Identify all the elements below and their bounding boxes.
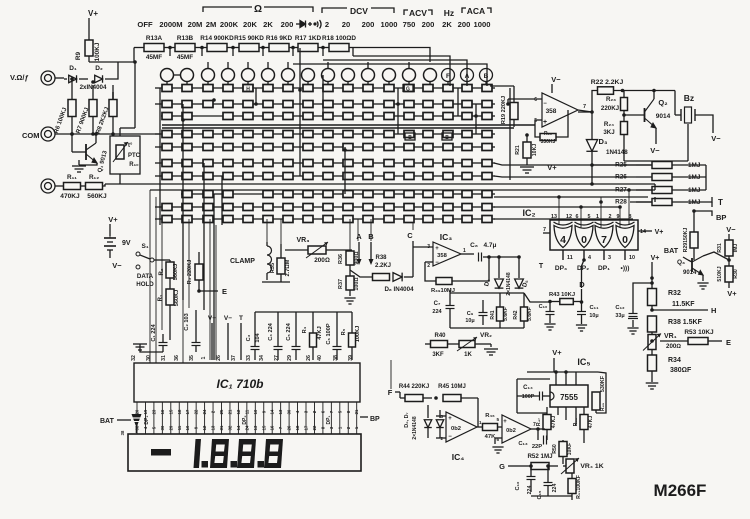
svg-text:31: 31 [219,425,224,430]
svg-text:OFF: OFF [137,20,153,29]
svg-text:Hz: Hz [444,8,454,18]
svg-text:V+: V+ [655,229,664,236]
svg-text:3: 3 [608,255,611,261]
svg-text:V−: V− [650,146,660,155]
svg-text:560KJ: 560KJ [173,264,179,280]
wire circle stubs up [207,62,209,69]
resistor R32 [648,289,657,306]
circled node A [461,69,474,82]
resistor R41 [497,307,504,321]
svg-text:R₄: R₄ [302,326,308,333]
resistor R49 [592,392,600,410]
transistor Q3 9014 [692,256,703,275]
svg-text:R₂₄: R₂₄ [604,121,614,128]
svg-text:R50: R50 [552,444,558,454]
svg-text:26: 26 [216,355,222,361]
svg-text:R13B: R13B [177,35,194,42]
ground R34 [646,383,659,389]
svg-text:17: 17 [185,409,190,414]
resistor R37 [346,276,354,290]
svg-text:R19 220KJ: R19 220KJ [501,96,507,124]
resistor R9 [85,40,93,56]
wire IC4 out [477,426,482,428]
IC5 7555 box [550,385,588,407]
svg-text:13: 13 [278,409,283,414]
switch contact B2 [405,133,415,140]
resistor R50 [559,442,567,457]
svg-text:11: 11 [244,409,249,414]
switch contact row 4 [162,131,172,138]
input jack COM [41,127,55,141]
svg-text:26: 26 [306,355,312,361]
svg-text:R17 1KD: R17 1KD [295,35,322,42]
svg-text:7: 7 [543,227,546,233]
transistor Q2 9014 [645,99,657,128]
svg-text:30: 30 [287,409,292,414]
resistor R21 [523,142,531,158]
wire COM rail [55,133,160,135]
svg-text:DP₃: DP₃ [555,265,567,272]
svg-text:12: 12 [236,409,241,414]
op-amp IC4 [446,412,477,442]
svg-text:+: + [435,246,439,252]
svg-text:17: 17 [304,425,309,430]
svg-text:14: 14 [236,425,241,430]
svg-text:R₄₉: R₄₉ [600,403,606,411]
svg-text:R₁₂: R₁₂ [89,174,99,181]
svg-text:12: 12 [202,425,207,430]
svg-text:R30: R30 [733,269,739,279]
resistor R6 [68,100,76,117]
svg-text:14: 14 [640,229,646,235]
svg-text:R53 10KJ: R53 10KJ [684,329,714,336]
svg-text:2K: 2K [263,20,273,29]
node T right [695,197,712,202]
svg-text:1000: 1000 [381,20,398,29]
wire feeder rail 3 [323,60,467,86]
diode D6 [424,420,432,428]
svg-text:R34: R34 [668,357,681,364]
svg-text:39: 39 [348,355,354,361]
wire IC3 out [461,253,474,255]
capacitor C16 [527,477,536,480]
svg-text:B: B [484,73,489,80]
svg-text:B: B [445,135,449,141]
svg-text:27: 27 [274,355,280,361]
svg-text:200: 200 [422,20,435,29]
svg-text:16: 16 [270,425,275,430]
wire VR3 [285,249,308,251]
svg-text:R₄₇: R₄₇ [536,418,542,426]
svg-text:ACV: ACV [409,8,427,18]
svg-text:D₆, D₇: D₆, D₇ [404,412,410,427]
resistor R34 [648,355,657,371]
svg-text:0b2: 0b2 [451,426,461,432]
net label Ohm range bracket [203,7,252,12]
svg-text:−: − [543,101,547,107]
wire left drop from R13A [89,48,134,63]
svg-text:29: 29 [287,355,293,361]
svg-text:−: − [435,260,439,266]
svg-text:C₉: C₉ [467,311,474,317]
svg-text:34: 34 [259,355,265,361]
svg-text:16: 16 [160,409,165,414]
wire jack3 to R11 [55,185,63,187]
wire R3 net E [198,252,200,264]
svg-text:Ω: Ω [254,4,262,15]
wire Q2 emitter V- [655,128,657,144]
svg-text:R35: R35 [270,263,276,273]
svg-text:F: F [446,73,450,80]
ground IC4b [494,438,496,444]
switch contact H [243,85,253,92]
svg-text:T: T [718,198,723,207]
svg-text:C₅ 224: C₅ 224 [286,322,292,340]
svg-text:5.6KF: 5.6KF [503,307,509,321]
svg-text:R21: R21 [515,145,521,155]
resistor R8 [109,100,117,117]
resistor R3 [195,264,203,280]
thermistor PTC R10 [110,136,140,174]
svg-text:38: 38 [120,430,125,435]
resistor R29 [690,232,698,248]
wire R1 down [169,305,171,340]
svg-text:2×1N4148: 2×1N4148 [412,416,418,439]
wire R42 to C10 rail [524,293,550,302]
inductor clamp coil [267,246,272,273]
svg-text:R₅₁100KF: R₅₁100KF [576,475,582,499]
svg-text:22: 22 [194,409,199,414]
wire feeder rail 2 [353,56,450,86]
svg-text:24: 24 [202,409,207,414]
resistor R48 [580,415,588,430]
svg-text:29: 29 [168,425,173,430]
resistor R1 [166,289,174,305]
wire R28 net [654,197,656,202]
net label ACV bracket [404,10,408,15]
switch contact row 9 [162,204,172,211]
svg-text:C₁₁: C₁₁ [590,305,600,311]
svg-text:224: 224 [552,484,558,493]
op-amp IC1 7106 box [134,363,360,402]
svg-text:R31: R31 [717,243,723,253]
wire VR3 drop [349,219,351,250]
wire Q2 base [624,114,645,116]
svg-text:24: 24 [244,425,249,430]
input jack V-ohm-f [41,71,55,85]
svg-text:1N4148: 1N4148 [606,149,628,156]
svg-text:Q₂: Q₂ [658,98,667,107]
svg-text:DP₁: DP₁ [326,415,332,424]
svg-text:G: G [406,87,410,93]
svg-text:35: 35 [189,355,195,361]
node BP right [360,416,368,418]
IC2 box [550,220,638,250]
wire Q2 collector [653,91,655,100]
resistor R4 [310,333,317,347]
svg-text:R₂₃: R₂₃ [606,96,616,103]
svg-text:COM: COM [22,131,40,140]
svg-text:E: E [726,338,731,347]
svg-text:−: − [448,434,452,440]
svg-text:33μ: 33μ [615,313,624,319]
junction dots on rail [168,46,172,50]
wire matrix vertical interconnects [159,88,161,225]
svg-text:D₁: D₁ [69,65,77,72]
wire mid rails [450,292,524,294]
svg-text:C₂ 103: C₂ 103 [184,313,190,330]
svg-text:7: 7 [583,104,586,110]
svg-text:BAT: BAT [664,246,679,255]
svg-text:R37: R37 [338,279,344,289]
svg-text:530KF: 530KF [600,375,606,392]
wire IC5 pins mid [557,407,559,415]
svg-text:C₆ 100P: C₆ 100P [326,323,332,344]
potentiometer VR4 [566,459,574,473]
svg-text:200: 200 [362,20,375,29]
wire Q1 base [71,134,73,152]
svg-text:14: 14 [270,409,275,414]
svg-text:1000: 1000 [474,20,491,29]
svg-text:15: 15 [261,425,266,430]
wire IC5 top pins [555,372,557,385]
svg-text:4: 4 [560,234,566,246]
wire matrix junction dots [181,118,185,122]
svg-text:T: T [239,315,243,322]
svg-text:1K: 1K [464,352,472,358]
svg-text:C₁₄: C₁₄ [523,385,533,391]
svg-text:224: 224 [527,486,533,495]
wire feeder rail 4 [293,64,487,86]
svg-text:100P: 100P [522,394,535,400]
svg-text:V+: V+ [547,163,557,172]
svg-text:D₃: D₃ [599,137,608,146]
svg-text:R7 900KJ: R7 900KJ [76,107,91,134]
svg-text:C₁₃: C₁₃ [518,441,528,447]
svg-text:1: 1 [201,356,207,359]
svg-text:5.6KF: 5.6KF [527,307,533,321]
diode D8 [393,273,402,282]
svg-text:R28: R28 [615,199,627,206]
svg-text:2K: 2K [442,20,452,29]
svg-text:0: 0 [581,234,587,246]
svg-text:V−: V− [551,75,561,84]
svg-text:22P: 22P [532,444,542,450]
svg-text:19: 19 [143,409,148,414]
svg-text:V−: V− [726,225,736,234]
svg-text:358: 358 [437,253,447,259]
svg-text:47KJ: 47KJ [588,416,594,429]
low battery indicator symbol [132,414,142,425]
wire range resistor rail [134,47,144,49]
svg-text:11: 11 [177,425,182,430]
svg-text:DP₂: DP₂ [242,415,248,424]
svg-text:F: F [388,388,393,397]
svg-text:25: 25 [219,409,224,414]
wire R bottoms [71,116,73,134]
svg-text:C₁₂: C₁₂ [615,305,625,311]
svg-text:R41: R41 [490,310,496,319]
input jack 3 [41,179,55,193]
wire Q3 emitter gnd [702,275,704,281]
svg-text:+: + [448,416,452,422]
svg-text:10: 10 [185,425,190,430]
svg-text:15: 15 [168,409,173,414]
svg-text:M266F: M266F [654,481,707,500]
svg-text:R22 2.2KJ: R22 2.2KJ [591,79,624,86]
svg-text:45MF: 45MF [146,54,162,61]
svg-text:S₁: S₁ [141,243,148,250]
wire IC2 top pins [558,197,560,224]
net label ACA bracket [462,8,466,13]
svg-text:R42: R42 [513,310,519,319]
svg-text:18: 18 [177,409,182,414]
switch contact row 1 [162,85,172,92]
rotary switch wiper contacts row [161,69,174,82]
svg-text:t°: t° [128,143,133,149]
svg-text:22: 22 [312,425,317,430]
svg-text:R26: R26 [615,174,627,181]
svg-text:560KJ: 560KJ [87,193,107,200]
svg-text:30: 30 [160,425,165,430]
svg-text:20K: 20K [243,20,257,29]
LCD display -1.8.8.8 [128,434,361,471]
svg-text:30: 30 [146,355,152,361]
svg-text:R29150KJ: R29150KJ [683,227,689,252]
svg-text:10KF: 10KF [567,443,573,456]
svg-text:DCV: DCV [350,6,368,16]
svg-text:220KJ: 220KJ [601,105,620,112]
svg-text:11.5KF: 11.5KF [672,301,695,308]
diode D7 [436,420,444,428]
svg-text:10: 10 [629,255,635,261]
svg-text:V+: V+ [108,215,118,224]
svg-text:VR₄ 1K: VR₄ 1K [580,463,603,470]
capacitor C15 [544,483,553,486]
svg-text:330KJ: 330KJ [541,139,556,145]
svg-text:200: 200 [281,20,294,29]
wire R8 top [112,92,114,100]
resistor R31 [725,240,733,256]
svg-text:R₅: R₅ [341,328,347,335]
resistor R2 [166,262,174,278]
svg-text:VR₃: VR₃ [297,237,310,244]
circled node B [480,69,493,82]
svg-text:13: 13 [211,425,216,430]
resistor R47 [543,415,551,430]
diode D3 [586,140,597,152]
svg-text:R32: R32 [668,290,681,297]
svg-text:V−: V− [224,315,232,322]
svg-text:100KJ: 100KJ [355,326,361,342]
wire clamp gnd [262,281,290,283]
wire R2-R1 [169,278,171,289]
svg-text:R13A: R13A [146,35,163,42]
resistor R38v [648,316,657,332]
svg-text:R₁₀: R₁₀ [129,162,139,168]
svg-text:358: 358 [546,108,557,115]
svg-text:40: 40 [317,355,323,361]
resistor R35 [277,258,285,274]
svg-text:560KJ: 560KJ [174,290,180,306]
svg-text:Bz: Bz [684,93,694,103]
svg-text:200Ω: 200Ω [666,343,681,350]
svg-text:38: 38 [333,355,339,361]
svg-text:+: + [503,419,507,425]
svg-text:6: 6 [534,97,537,103]
svg-text:2M: 2M [206,20,217,29]
svg-text:7: 7 [601,234,607,246]
resistor R42 [521,307,528,321]
svg-text:V.Ω/ƒ: V.Ω/ƒ [10,73,29,82]
svg-text:C₈: C₈ [470,242,478,249]
svg-text:PTC: PTC [128,153,141,159]
svg-text:0b2: 0b2 [506,428,516,434]
svg-text:2: 2 [325,20,329,29]
switch position diode-buzzer symbol [296,20,321,28]
wire D2 out [105,62,118,79]
ground caps [140,344,163,352]
wire matrix to IC2 drops [494,206,620,208]
node BP right2 [694,211,712,216]
wire matrix left drops [149,190,151,363]
svg-text:26: 26 [287,425,292,430]
svg-text:IC₄: IC₄ [452,452,465,462]
svg-text:9014: 9014 [656,113,671,120]
svg-text:Q₃: Q₃ [677,259,685,266]
wire mid matrix rails [162,124,535,126]
svg-text:R40: R40 [434,333,446,339]
resistor R20 [540,134,556,141]
svg-text:3KJ: 3KJ [603,129,615,136]
svg-text:R14 900KD: R14 900KD [200,35,234,42]
svg-text:R16 9KD: R16 9KD [266,35,293,42]
svg-text:200: 200 [458,20,471,29]
svg-text:D₂: D₂ [95,65,103,72]
switch contact G [403,85,413,92]
svg-text:21: 21 [227,409,232,414]
svg-text:1: 1 [479,420,482,425]
potentiometer VR1 [648,335,656,350]
svg-text:G: G [499,462,505,471]
svg-text:18: 18 [295,425,300,430]
wire D1-D2 [79,78,88,80]
svg-text:100Ω: 100Ω [354,277,360,290]
svg-text:IC₂: IC₂ [523,208,536,218]
wire circle stubs [166,81,168,85]
svg-text:BP: BP [716,213,726,222]
svg-text:5: 5 [496,417,499,422]
svg-text:C₃: C₃ [246,334,252,341]
svg-text:A: A [356,232,362,241]
svg-text:DP₁: DP₁ [598,265,610,272]
net label DCV bracket [322,8,347,13]
wire jack1 to D1 [55,77,64,79]
wire R9 to rail [88,56,90,62]
svg-text:4: 4 [588,255,591,261]
svg-text:37: 37 [231,355,237,361]
svg-text:2×1N4148: 2×1N4148 [506,272,512,295]
svg-text:R6 100KJ: R6 100KJ [54,107,69,134]
svg-text:V+: V+ [208,315,216,322]
svg-text:VR₂: VR₂ [480,332,492,339]
wire opamp out [578,110,592,112]
svg-text:R36: R36 [338,254,344,264]
wire Q1 collector [95,134,97,143]
svg-text:R15 90KD: R15 90KD [234,35,264,42]
switch contact row 10 [162,216,172,223]
wire Q3 collector [703,252,729,260]
